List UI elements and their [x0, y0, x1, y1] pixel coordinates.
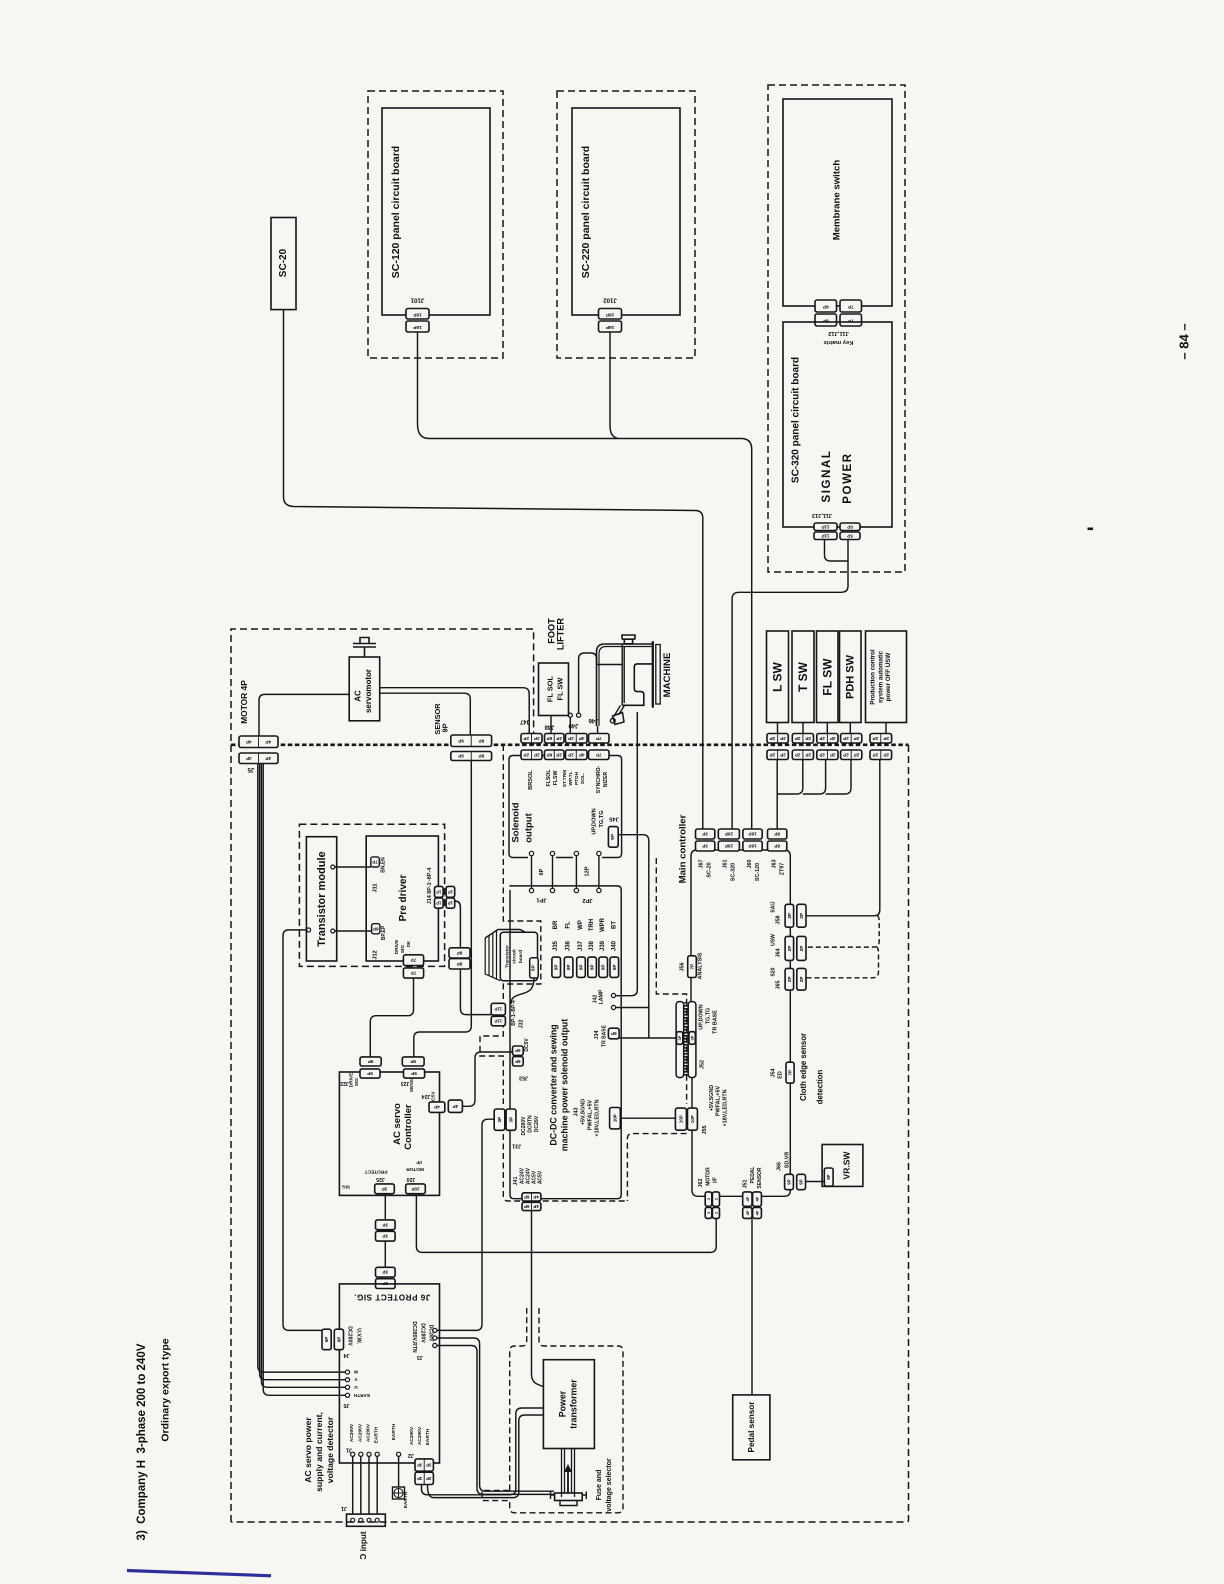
svg-text:J55: J55 — [702, 1126, 708, 1135]
svg-text:J4: J4 — [344, 1352, 350, 1358]
svg-text:J51: J51 — [743, 1180, 749, 1189]
svg-text:3P: 3P — [497, 1117, 502, 1123]
connector J20 20P — [406, 1184, 426, 1194]
J1 input block pin at x 369 — [367, 1518, 371, 1522]
connector 6P membrane side — [815, 300, 837, 312]
wires J3 pins 2 3 to fuse — [437, 1338, 554, 1491]
svg-text:4P: 4P — [434, 1105, 440, 1110]
wire machine lamp down to J42 pin1 — [616, 712, 637, 996]
svg-text:4P: 4P — [533, 1194, 539, 1199]
wire J43 to J55 — [620, 1117, 675, 1119]
svg-text:J39: J39 — [600, 940, 606, 951]
svg-text:2P: 2P — [819, 736, 825, 741]
connector J60 16P upper — [743, 829, 762, 839]
svg-text:2P: 2P — [883, 752, 889, 757]
svg-text:J46: J46 — [588, 717, 599, 723]
svg-text:Pre driver: Pre driver — [398, 875, 409, 922]
transformer dashed enclosure with notch — [510, 1308, 527, 1490]
svg-text:2P: 2P — [805, 752, 811, 757]
svg-text:8P: 8P — [566, 964, 571, 970]
motor output pin EARTH on J5 — [345, 1393, 349, 1397]
svg-text:3P: 3P — [690, 1035, 695, 1040]
connector 6P board side — [815, 314, 837, 326]
connector J49 lower — [566, 750, 588, 760]
AC servo controller box — [339, 1072, 439, 1195]
svg-text:detection: detection — [815, 1069, 824, 1104]
svg-text:2P: 2P — [799, 913, 804, 919]
svg-text:8P: 8P — [554, 964, 559, 970]
connector J39 8P WPR — [599, 957, 608, 977]
svg-text:4P: 4P — [246, 756, 252, 761]
svg-text:7P: 7P — [411, 958, 417, 963]
svg-text:J64: J64 — [775, 949, 781, 958]
svg-text:J54: J54 — [771, 1069, 777, 1078]
connector VR.SW 9P — [824, 1168, 833, 1186]
connector J24 4P outer — [448, 1100, 462, 1112]
svg-text:WP: WP — [578, 920, 584, 930]
AC servomotor pulley symbol — [353, 638, 376, 658]
connector J23 9P lower — [404, 1069, 425, 1078]
svg-text:8P: 8P — [774, 844, 780, 849]
svg-text:2P: 2P — [770, 752, 776, 757]
wire PDH SW join — [826, 760, 851, 795]
connector pre driver 7P lower — [403, 968, 423, 978]
svg-text:2P: 2P — [556, 752, 562, 757]
svg-text:ZT97: ZT97 — [780, 863, 786, 876]
svg-text:LIFTER: LIFTER — [556, 618, 566, 651]
svg-text:circuit: circuit — [511, 949, 517, 964]
svg-text:3P: 3P — [426, 1463, 431, 1468]
svg-text:J5: J5 — [247, 766, 254, 773]
connector J55 10P left — [675, 1108, 686, 1130]
connector J46 lower — [589, 750, 610, 760]
svg-text:5P: 5P — [847, 533, 853, 538]
svg-text:VR.SW: VR.SW — [842, 1151, 852, 1180]
svg-text:BP-1–BP-4: BP-1–BP-4 — [511, 1000, 517, 1026]
svg-text:DRIVE: DRIVE — [394, 939, 400, 954]
svg-text:AC servo: AC servo — [392, 1103, 403, 1145]
connector USW 2P upper — [870, 734, 892, 744]
svg-text:BP,EP: BP,EP — [381, 925, 387, 940]
connector J61 20P lower — [718, 841, 739, 851]
svg-text:DC280V: DC280V — [347, 1326, 353, 1346]
svg-text:PWFAL,+5V: PWFAL,+5V — [588, 1100, 594, 1131]
wire transistor module to power unit J4 — [307, 928, 311, 932]
Membrane switch box — [783, 99, 892, 306]
connector 8P on transistor circuit board — [530, 958, 539, 978]
stray dash mark — [1088, 528, 1094, 531]
PDH SW box — [840, 631, 862, 723]
svg-text:TRH: TRH — [589, 919, 595, 931]
svg-text:J58: J58 — [775, 916, 781, 925]
svg-text:AC: AC — [354, 690, 363, 702]
svg-text:SIGNAL: SIGNAL — [821, 449, 833, 502]
svg-text:DC-DC converter and sewing: DC-DC converter and sewing — [549, 1024, 559, 1145]
connector J22 9P lower — [360, 1069, 380, 1078]
svg-text:Controller: Controller — [403, 1104, 414, 1150]
foot lifter switch contact B — [577, 713, 581, 717]
svg-text:J101: J101 — [410, 297, 424, 304]
svg-text:J66: J66 — [777, 1162, 783, 1171]
svg-text:Membrane switch: Membrane switch — [832, 160, 843, 241]
motor output pin V on J5 — [345, 1378, 349, 1382]
wire servomotor to sensor connector — [380, 693, 471, 735]
motor output pin W on J5 — [345, 1370, 349, 1374]
svg-text:AC200V: AC200V — [357, 1423, 363, 1442]
svg-text:10P: 10P — [690, 1115, 695, 1123]
svg-text:J38: J38 — [589, 940, 595, 951]
svg-text:2P: 2P — [780, 736, 786, 741]
svg-text:DCRTN: DCRTN — [528, 1115, 534, 1133]
jumper JP2 12P — [576, 856, 599, 889]
svg-text:Ɔ input: Ɔ input — [359, 1531, 368, 1559]
svg-text:J37: J37 — [578, 940, 584, 951]
svg-text:2P: 2P — [534, 736, 540, 741]
svg-text:2P: 2P — [770, 736, 776, 741]
svg-text:J67: J67 — [699, 860, 705, 869]
SC-320 panel circuit board box — [783, 322, 892, 527]
svg-text:6P: 6P — [524, 1194, 530, 1199]
connector 5P upper — [840, 523, 860, 531]
svg-text:J22: J22 — [340, 1080, 349, 1086]
wire T SW join — [777, 760, 803, 795]
svg-text:9P: 9P — [367, 1071, 373, 1076]
svg-text:T SW: T SW — [796, 661, 810, 692]
svg-text:AC24V: AC24V — [525, 1167, 531, 1184]
svg-text:J52: J52 — [699, 1060, 705, 1069]
input pin J1 at x 377.2 — [375, 1452, 379, 1456]
svg-text:PWFAL,+5V: PWFAL,+5V — [716, 1086, 722, 1117]
svg-text:7P: 7P — [596, 752, 602, 757]
svg-text:8P: 8P — [579, 964, 584, 970]
svg-text:SC-320 panel circuit board: SC-320 panel circuit board — [791, 357, 802, 483]
connector J67 3P upper — [696, 829, 715, 839]
wire J31 to J3 — [437, 1119, 494, 1330]
svg-text:6P: 6P — [515, 1059, 520, 1064]
svg-text:4P: 4P — [533, 1204, 539, 1209]
svg-text:2P: 2P — [873, 736, 879, 741]
svg-text:SYNCHRO-: SYNCHRO- — [596, 765, 602, 793]
wire SC-20 to J67 — [284, 310, 703, 829]
connector inline 8P upper — [449, 948, 470, 958]
wire lamp pin2 to J45 line — [616, 1007, 649, 1009]
svg-text:2P: 2P — [523, 736, 529, 741]
svg-text:J45: J45 — [608, 816, 618, 822]
svg-text:6P: 6P — [547, 752, 553, 757]
svg-text:Fuse and: Fuse and — [596, 1470, 603, 1501]
svg-text:J43: J43 — [574, 1108, 580, 1117]
svg-text:JP2: JP2 — [582, 897, 592, 903]
svg-text:11P: 11P — [822, 524, 830, 529]
connector J52 mid cells — [677, 1032, 683, 1045]
svg-text:W: W — [353, 1370, 358, 1375]
svg-text:servomotor: servomotor — [364, 669, 373, 713]
connector J33 DC5V upper — [513, 1046, 524, 1055]
connector J63 8P lower — [768, 841, 787, 851]
svg-text:+18V,LED,RTN: +18V,LED,RTN — [722, 1089, 728, 1126]
svg-text:AC24V: AC24V — [519, 1167, 525, 1184]
svg-text:3P: 3P — [417, 1463, 422, 1468]
svg-text:7P: 7P — [596, 736, 602, 741]
J1 input block pin at x 377.2 — [375, 1518, 379, 1522]
blue scan artifact line — [127, 1571, 271, 1576]
svg-text:SIG: SIG — [354, 1078, 360, 1087]
wire transistor module to J12 — [331, 929, 335, 933]
connector J2 3P upper — [415, 1459, 433, 1471]
svg-text:2P: 2P — [830, 752, 836, 757]
connector J62 cells — [705, 1192, 712, 1206]
main controller box top and sides — [691, 850, 790, 956]
svg-text:SC-320: SC-320 — [731, 863, 737, 881]
svg-text:6P: 6P — [336, 1337, 341, 1343]
connector J38 8P TRH — [588, 957, 597, 977]
svg-text:7P: 7P — [411, 971, 417, 976]
svg-text:2P: 2P — [843, 736, 849, 741]
connector motor 4P lower — [239, 753, 278, 764]
svg-text:8P: 8P — [457, 961, 463, 966]
svg-text:6P: 6P — [611, 1031, 617, 1036]
connector J64 2P outer — [797, 936, 806, 960]
input pin J1 at x 352.7 — [351, 1452, 355, 1456]
connector J58 2P outer — [797, 904, 806, 927]
MACHINE head icon — [622, 635, 635, 644]
svg-text:J60: J60 — [747, 860, 753, 869]
connector J102 16P lower — [599, 321, 622, 332]
svg-text:2P: 2P — [787, 913, 792, 919]
solenoid output box — [509, 756, 528, 858]
connector J33 DC5V lower — [513, 1057, 524, 1066]
svg-text:TG,TG: TG,TG — [599, 810, 605, 827]
svg-text:Main controller: Main controller — [677, 814, 688, 883]
connector J36 8P FL — [564, 957, 573, 977]
svg-text:6P: 6P — [822, 304, 829, 310]
svg-text:Solenoid: Solenoid — [511, 802, 522, 842]
svg-text:2P: 2P — [854, 752, 860, 757]
svg-text:J14 8P-1~8P-4: J14 8P-1~8P-4 — [427, 868, 433, 904]
connector J45 9P — [608, 827, 618, 848]
svg-text:BR: BR — [553, 920, 559, 929]
svg-text:J47: J47 — [519, 718, 530, 724]
svg-text:9P: 9P — [458, 738, 464, 743]
svg-text:WPR: WPR — [600, 917, 606, 932]
wire J55 to J62 — [692, 1130, 705, 1196]
connector J47 lower — [521, 750, 542, 760]
svg-text:EARTH: EARTH — [391, 1423, 397, 1440]
FL SW box — [817, 631, 839, 723]
wire sensor down to J23 — [414, 761, 472, 1057]
connector 5P lower — [840, 532, 860, 540]
connector J1 input block — [347, 1514, 386, 1526]
svg-text:FL SOL: FL SOL — [545, 675, 554, 702]
svg-text:J23: J23 — [401, 1080, 410, 1086]
earth ground symbol — [393, 1487, 405, 1499]
connector T SW 2P lower — [792, 750, 813, 760]
svg-text:AC200V: AC200V — [409, 1426, 415, 1445]
svg-text:J11,J13: J11,J13 — [812, 512, 832, 518]
connector 11P upper — [814, 523, 837, 531]
wire J14 to J32 — [455, 901, 492, 1015]
wire FL SOL box to J48 — [550, 716, 552, 734]
svg-text:U,V,W,: U,V,W, — [356, 1328, 362, 1344]
svg-text:DK: DK — [406, 940, 411, 947]
wire motor connector to servomotor — [259, 694, 349, 736]
SC-320 panel dashed enclosure — [768, 85, 905, 572]
transistor module box — [306, 837, 336, 961]
connector J52 column left — [676, 1002, 684, 1078]
connector J41 upper — [522, 1193, 541, 1201]
svg-text:DC5V: DC5V — [524, 1038, 530, 1052]
svg-text:2P: 2P — [534, 752, 540, 757]
svg-text:SC-120: SC-120 — [755, 863, 761, 881]
svg-text:9P: 9P — [479, 754, 485, 759]
foot lifter switch contact A — [568, 713, 572, 717]
bold dashed machine boundary line — [231, 743, 909, 746]
svg-text:J40: J40 — [611, 940, 617, 951]
svg-text:J41: J41 — [513, 1177, 519, 1186]
SC-220 panel dashed enclosure — [557, 91, 695, 358]
connector 11P lower — [814, 532, 837, 540]
svg-text:J102: J102 — [603, 297, 617, 304]
svg-text:machine power solenoid output: machine power solenoid output — [560, 1019, 570, 1152]
svg-text:TR BASE: TR BASE — [601, 1024, 607, 1047]
connector J102 16P upper — [599, 309, 622, 320]
input pin J1 at x 369 — [367, 1452, 371, 1456]
wire contact A to J49 — [569, 717, 571, 733]
svg-text:J53: J53 — [519, 1075, 528, 1081]
svg-text:supply and current,: supply and current, — [314, 1412, 324, 1492]
wire USW down to J58 — [806, 760, 880, 916]
svg-text:11P: 11P — [822, 533, 830, 538]
svg-text:AC200V: AC200V — [366, 1423, 372, 1442]
svg-text:J5: J5 — [344, 1402, 350, 1408]
connector J49 upper — [566, 734, 588, 744]
svg-text:POWER: POWER — [842, 452, 854, 503]
svg-text:BN,EN: BN,EN — [381, 857, 387, 873]
wire SC-320 5P to J61 — [732, 540, 848, 830]
svg-text:L SW: L SW — [771, 661, 785, 691]
svg-text:6P: 6P — [515, 1048, 520, 1053]
svg-text:2P: 2P — [795, 752, 801, 757]
svg-text:10P: 10P — [678, 1115, 683, 1123]
connector J67 3P lower — [696, 841, 715, 851]
fuse and selector icon — [562, 1449, 575, 1498]
wire servomotor to J47 brake solenoid — [380, 688, 530, 734]
svg-text:12P: 12P — [585, 866, 591, 876]
wire J51 to pedal sensor — [751, 1218, 753, 1395]
output pins J3 — [433, 1328, 437, 1332]
svg-text:WP.TL: WP.TL — [568, 771, 574, 785]
wire J45 to J52 and lamp — [618, 835, 649, 1038]
svg-text:3) Company H 3-phase 200 to: 3) Company H 3-phase 200 to 240V — [136, 1343, 148, 1540]
svg-text:2P: 2P — [854, 736, 860, 741]
svg-text:J61: J61 — [723, 860, 729, 869]
svg-text:+5V,SGND: +5V,SGND — [581, 1099, 587, 1125]
svg-text:voltage detector: voltage detector — [325, 1416, 335, 1483]
main unit dashed enclosure left and top — [231, 629, 534, 1522]
svg-text:UP,DOWN: UP,DOWN — [591, 808, 597, 834]
connector J60 16P lower — [743, 841, 762, 851]
wire J102 joining SC-120 bus — [610, 332, 618, 438]
svg-text:SENSOR: SENSOR — [757, 1167, 763, 1189]
main unit dashed enclosure right and bottom — [231, 745, 909, 1522]
J42 lamp pin 2 — [611, 1005, 615, 1009]
svg-text:3P: 3P — [509, 1117, 514, 1123]
motor output pin U on J5 — [345, 1385, 349, 1389]
connector J65 2P outer — [797, 968, 806, 990]
svg-text:3P: 3P — [382, 1270, 388, 1275]
svg-text:AC5V: AC5V — [538, 1170, 544, 1184]
connector J54 7P ED — [786, 1062, 794, 1083]
svg-text:I/F: I/F — [712, 1177, 718, 1183]
connector T SW 2P upper — [792, 734, 813, 744]
svg-text:FL SW: FL SW — [555, 678, 564, 701]
connector J41 lower — [522, 1202, 541, 1210]
wire transistor circuit board to J32 — [511, 978, 534, 1004]
svg-text:8P: 8P — [601, 964, 606, 970]
connector sensor 9P lower — [451, 752, 492, 761]
svg-text:3P: 3P — [417, 1476, 422, 1481]
svg-text:AC servo power: AC servo power — [303, 1417, 313, 1483]
dashed wire J58 to J64 — [806, 916, 879, 947]
svg-text:6P: 6P — [524, 1204, 530, 1209]
svg-text:I/F: I/F — [416, 1159, 422, 1165]
svg-text:PEDAL: PEDAL — [750, 1167, 756, 1184]
svg-text:FLSOL: FLSOL — [546, 769, 552, 787]
svg-text:6P: 6P — [324, 1337, 329, 1343]
svg-text:2P: 2P — [568, 736, 574, 741]
SC-20 operation panel box — [271, 218, 296, 310]
svg-text:2P: 2P — [883, 736, 889, 741]
svg-text:J11: J11 — [373, 883, 379, 892]
svg-text:J12: J12 — [373, 950, 379, 959]
svg-text:2P: 2P — [873, 752, 879, 757]
svg-text:Transistor module: Transistor module — [316, 851, 328, 946]
svg-text:DC280V: DC280V — [420, 1323, 426, 1343]
svg-text:V: V — [354, 1377, 358, 1382]
connector protect 3P c — [376, 1267, 396, 1277]
svg-text:3P: 3P — [382, 1186, 388, 1191]
svg-text:4P: 4P — [745, 1210, 750, 1215]
svg-text:BT: BT — [611, 921, 617, 929]
svg-text:3P: 3P — [382, 1222, 388, 1227]
svg-text:2P: 2P — [799, 946, 804, 952]
connector PDH SW 2P upper — [841, 734, 862, 744]
svg-text:9P: 9P — [610, 833, 616, 840]
connector J101 16P upper — [406, 309, 429, 320]
svg-text:EARTH: EARTH — [403, 1491, 409, 1508]
connector protect 3P d — [376, 1279, 396, 1289]
svg-text:6P: 6P — [547, 736, 553, 741]
connector FL SW 2P upper — [817, 734, 838, 744]
svg-text:3P: 3P — [677, 1035, 682, 1040]
svg-text:7P: 7P — [847, 304, 854, 310]
svg-text:6P: 6P — [539, 868, 545, 875]
pedal sensor box — [733, 1395, 770, 1460]
svg-text:2P: 2P — [795, 736, 801, 741]
svg-text:AC200V: AC200V — [417, 1426, 423, 1445]
svg-text:DRIVE: DRIVE — [348, 1072, 354, 1087]
svg-text:16P: 16P — [412, 324, 421, 330]
connector J55 10P right — [688, 1108, 698, 1130]
svg-text:1P: 1P — [448, 889, 453, 894]
svg-text:2P: 2P — [787, 976, 792, 982]
svg-text:2P: 2P — [819, 752, 825, 757]
svg-text:4P: 4P — [265, 739, 271, 744]
svg-text:4P: 4P — [265, 756, 271, 761]
input pin J1 at x 360.8 — [359, 1452, 363, 1456]
connector J31 right 3P — [506, 1109, 516, 1130]
svg-text:SAIJ: SAIJ — [771, 901, 777, 912]
